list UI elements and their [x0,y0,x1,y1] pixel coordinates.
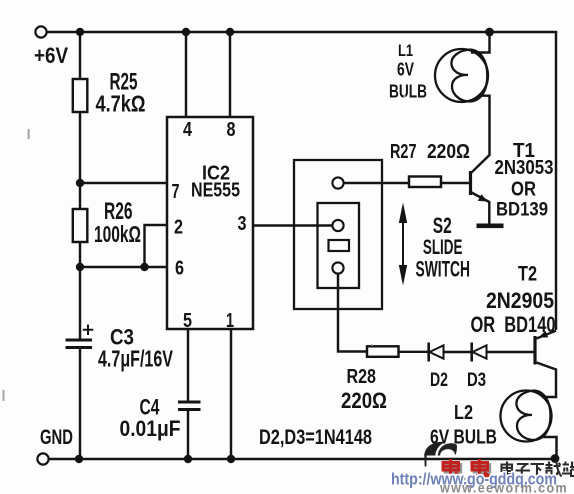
svg-text:D2,D3=1N4148: D2,D3=1N4148 [259,425,372,449]
svg-text:D3: D3 [467,370,486,391]
svg-text:2N3053: 2N3053 [495,157,554,179]
svg-text:OR BD140: OR BD140 [471,312,556,337]
svg-text:2: 2 [174,217,183,239]
svg-text:220Ω: 220Ω [341,388,387,413]
svg-text:8: 8 [227,119,236,141]
svg-text:100kΩ: 100kΩ [94,221,141,247]
svg-text:4.7kΩ: 4.7kΩ [96,91,146,117]
svg-text:L1: L1 [398,41,413,60]
svg-text:L2: L2 [454,402,473,424]
svg-text:6: 6 [175,258,184,280]
svg-text:2N2905: 2N2905 [486,288,554,313]
svg-text:0.01μF: 0.01μF [120,416,181,441]
svg-text:7: 7 [172,181,180,203]
svg-text:4: 4 [183,119,193,141]
svg-text:4.7μF/16V: 4.7μF/16V [98,346,173,372]
svg-text:GND: GND [40,426,73,449]
svg-text:BULB: BULB [389,82,427,102]
svg-text:1: 1 [226,310,234,332]
svg-text:6V: 6V [397,60,414,80]
svg-text:R27: R27 [390,141,417,163]
svg-text:OR: OR [511,179,536,201]
svg-text:R28: R28 [347,366,377,388]
svg-text:SWITCH: SWITCH [416,257,471,282]
svg-text:220Ω: 220Ω [427,141,470,163]
svg-text:www.eeworm.com: www.eeworm.com [439,481,568,494]
svg-text:T2: T2 [518,263,537,286]
svg-text:+6V: +6V [34,43,68,68]
svg-text:BD139: BD139 [496,200,548,221]
svg-text:D2: D2 [430,370,448,391]
svg-text:NE555: NE555 [191,180,240,202]
svg-text:5: 5 [183,310,192,332]
svg-text:3: 3 [238,213,247,235]
svg-text:S2: S2 [433,213,452,238]
